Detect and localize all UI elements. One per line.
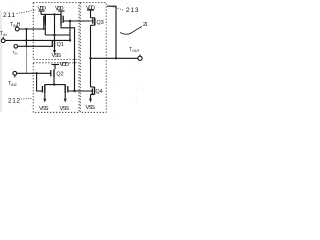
wire node G1 horizontal	[45, 34, 70, 36]
svg-text:Q3: Q3	[97, 20, 104, 26]
svg-text:212: 212	[8, 98, 20, 105]
wire M2 gate to Q3 gate	[63, 20, 93, 22]
power VDD Q3	[87, 9, 94, 11]
svg-text:211: 211	[3, 12, 15, 19]
svg-text:VSS: VSS	[39, 106, 49, 112]
node dot output right	[115, 57, 117, 59]
svg-text:Q4: Q4	[96, 89, 103, 95]
wire A: TINH to M1 gate	[19, 28, 44, 30]
ground VSS M4	[64, 99, 67, 103]
dashed box 212	[33, 63, 79, 113]
node dot M4 gate	[73, 90, 75, 92]
wire D: to Q2 gate	[17, 72, 51, 74]
wire D branch down	[37, 73, 43, 91]
node dot top pair	[53, 13, 55, 15]
wire right vertical	[107, 6, 116, 58]
dashed box 213	[80, 3, 106, 113]
leader 211	[17, 10, 37, 14]
terminal TIN circle	[1, 39, 5, 43]
wire input bus vertical	[25, 29, 27, 46]
wire M2 drain to M4 gate	[61, 25, 75, 92]
terminal TOUT circle	[138, 56, 142, 60]
node dot bus B	[25, 39, 27, 41]
power VDD Q2	[52, 64, 60, 66]
transistor M4	[64, 84, 66, 93]
wire M3 source	[44, 93, 46, 98]
leader 213	[109, 6, 123, 11]
ground VSS Q1	[53, 50, 56, 54]
wire center column node	[54, 14, 56, 40]
svg-text:VDD: VDD	[38, 6, 47, 12]
terminal TIN2 circle	[13, 71, 17, 75]
svg-text:Q2: Q2	[56, 72, 63, 78]
scan edge artifact	[0, 10, 2, 112]
svg-text:VSS: VSS	[52, 53, 62, 59]
leader 212	[21, 98, 32, 101]
svg-text:VDD: VDD	[86, 5, 95, 11]
svg-text:VSS: VSS	[60, 106, 70, 112]
node dot D branch	[35, 72, 37, 74]
wire Q4 source	[90, 95, 92, 99]
svg-text:VSS: VSS	[86, 105, 96, 111]
transistor Q1	[54, 40, 56, 48]
dashed box 211	[33, 3, 79, 60]
wire Q2 drain down	[53, 77, 55, 84]
leader 21	[120, 27, 142, 35]
svg-text:21: 21	[143, 22, 148, 28]
node dot A gate	[43, 28, 45, 30]
node dot G1	[53, 34, 55, 36]
node dot bus A	[25, 28, 27, 30]
svg-text:VDD: VDD	[55, 6, 64, 12]
terminal TIN1 circle	[14, 45, 18, 49]
wire C: to Q1 gate	[18, 45, 53, 47]
svg-text:213: 213	[126, 7, 139, 14]
node dot V1 top	[69, 20, 71, 22]
power VDD2 rail	[58, 10, 65, 12]
wire M4 source	[64, 93, 66, 98]
wire Q1 source	[54, 48, 56, 51]
svg-text:VDD: VDD	[60, 62, 70, 68]
node dot output	[89, 57, 91, 59]
transistor M2	[60, 14, 62, 24]
wire M1 gate drop	[43, 22, 45, 29]
wire gate bus y91	[68, 90, 93, 92]
transistor M1	[44, 14, 46, 25]
node dot V1 B	[69, 39, 71, 41]
wire M1 drain down	[44, 25, 46, 35]
transistor Q2	[53, 69, 55, 77]
node dot bus C	[26, 45, 28, 47]
wire B: TIN to node V1	[5, 39, 70, 41]
wire V1 vertical	[69, 21, 71, 40]
node dot bottom pair	[53, 83, 55, 85]
transistor M3	[44, 84, 46, 93]
terminal TINH circle	[15, 27, 19, 31]
svg-text:Q1: Q1	[57, 42, 64, 48]
svg-text:TIN: TIN	[12, 50, 17, 56]
ground VSS Q4	[89, 99, 92, 103]
wire output node	[91, 57, 139, 59]
transistor Q4	[94, 87, 96, 95]
wire Q3 drain down	[90, 25, 92, 58]
power VDD1 rail	[39, 10, 45, 12]
ground VSS M3	[43, 99, 46, 103]
transistor Q3	[94, 18, 96, 26]
wire Q4 drain	[90, 58, 92, 87]
